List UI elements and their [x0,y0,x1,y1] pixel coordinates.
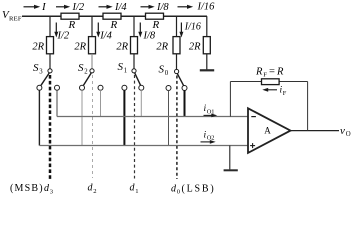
svg-text:R: R [276,67,284,78]
wire feedback top [230,81,307,83]
ground (terminator) [200,69,214,71]
wire bus2 iO2 [39,145,248,147]
current arrow I/4 [99,2,128,13]
svg-text:S: S [78,62,84,74]
svg-text:F: F [283,90,287,97]
switch S3 label [33,62,43,76]
current arrow iF [262,86,286,97]
wire S0 left to bus2 [168,90,170,145]
switch S3 pole [48,54,52,73]
switch S2 pole [90,54,94,73]
current arrow I/16 [178,1,216,12]
svg-text:REF: REF [9,16,22,23]
current arrow I/2 [56,2,85,13]
svg-text:I/8: I/8 [156,2,169,13]
control line d0 (dashed) [176,76,178,180]
svg-text:R: R [255,67,263,78]
svg-text:I/2: I/2 [72,2,85,13]
wire terminator drop [206,16,208,36]
wire S0 right to bus1 [184,90,186,116]
switch S2 blade [84,73,92,85]
wire bus1 iO1 [57,116,248,118]
svg-text:(MSB): (MSB) [10,183,44,194]
wire node2 drop [91,16,93,36]
node VREF label [2,9,22,23]
switch S2 right contact [98,85,103,90]
current label iO2 [201,130,216,144]
svg-text:3: 3 [50,188,54,195]
svg-text:A: A [264,125,271,135]
wire S2 right to bus1 [100,90,102,116]
svg-text:R: R [152,19,160,31]
svg-text:0: 0 [165,70,169,77]
resistor R (series 3) [146,13,164,31]
resistor 2R (terminator) [189,37,210,54]
svg-text:I/16: I/16 [197,1,216,12]
svg-text:2R: 2R [156,42,168,53]
switch S1 label [118,61,128,75]
svg-text:1: 1 [135,188,138,195]
resistor 2R (bit3) [32,37,53,54]
control line d1 (dashed) [134,75,136,179]
branch arrow I/8 [138,23,156,42]
switch S0 left contact [166,86,171,91]
switch S0 pole [175,54,179,74]
switch S3 right contact [55,85,60,90]
svg-text:1: 1 [124,68,127,75]
switch S0 blade [177,74,183,86]
svg-text:v: v [340,125,345,137]
switch S1 pole [132,54,136,73]
svg-text:2R: 2R [189,42,201,53]
svg-text:2R: 2R [32,42,44,53]
switch S1 right contact [139,85,144,90]
node d0 label (LSB) [171,183,216,195]
op-amp A [248,108,291,153]
switch S2 label [78,62,88,76]
resistor 2R (bit2) [74,37,95,54]
svg-text:I/2: I/2 [57,31,70,42]
branch arrow I/4 [96,23,112,42]
current label iO1 [204,104,218,117]
svg-text:S: S [33,62,39,74]
svg-text:2: 2 [84,69,88,76]
resistor R (series 2) [103,13,121,31]
svg-text:2R: 2R [116,42,128,53]
branch arrow I/16 [179,22,201,38]
svg-text:F: F [263,72,267,79]
svg-text:3: 3 [39,69,43,76]
wire S3 left to bus2 [38,90,40,145]
current arrow I/8 [141,2,170,13]
node vO label [340,125,351,138]
switch S0 right contact [182,86,187,91]
wire S2 left to bus2 [81,90,83,145]
svg-text:I/4: I/4 [99,31,112,42]
switch S2 left contact [80,85,85,90]
svg-text:2: 2 [93,188,96,195]
switch S1 blade [135,73,141,85]
wire output [291,130,340,132]
wire feedback right riser [307,82,309,131]
svg-text:I/16: I/16 [184,22,201,33]
resistor 2R (bit1) [116,37,137,54]
svg-text:S: S [118,61,124,73]
branch arrow I/2 [54,23,70,42]
wire node3 drop [133,16,135,36]
wire top rail [22,15,207,17]
wire node1 drop [49,16,51,36]
wire S1 left to bus2 [123,90,125,145]
control line d3 (dashed) [49,75,52,180]
current arrow I [24,1,48,13]
switch S3 blade [41,73,49,85]
svg-text:0: 0 [177,189,181,196]
node d2 label [88,183,97,195]
wire feedback left riser [229,82,231,117]
svg-text:=: = [269,67,275,78]
resistor RF [255,67,284,85]
svg-text:(LSB): (LSB) [182,183,216,194]
control line d2 (dashed) [92,75,94,178]
svg-text:S: S [159,64,165,76]
resistor R (series 1) [61,13,79,31]
node d3 label (MSB) [10,183,54,195]
node d1 label [130,183,139,195]
wire node4 drop [176,16,178,36]
wire S1 right to bus1 [140,90,142,116]
svg-text:R: R [110,19,118,31]
svg-text:2R: 2R [74,42,86,53]
wire S3 right to bus1 [56,90,58,116]
svg-text:I/8: I/8 [143,31,156,42]
switch S1 left contact [122,85,127,90]
svg-text:R: R [68,19,76,31]
switch S0 label [159,64,169,78]
switch S3 left contact [37,85,42,90]
svg-text:I/4: I/4 [114,2,127,13]
resistor 2R (bit0) [156,37,180,54]
wire terminator to ground [206,54,208,70]
ground (op-amp +input) [224,169,238,171]
svg-text:I: I [41,1,47,13]
svg-text:O: O [346,131,351,138]
wire ground stub at +input [229,146,231,170]
